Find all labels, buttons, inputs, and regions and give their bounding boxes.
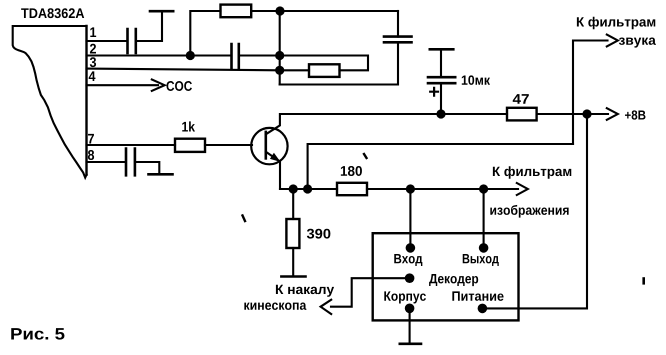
node emitter/390 bbox=[289, 184, 298, 193]
label K nakalu bbox=[276, 285, 334, 297]
label 47 bbox=[513, 94, 529, 104]
pin dot Vhod bbox=[406, 243, 416, 253]
ground (chassis bar) below decoder bbox=[400, 342, 421, 345]
caption Ris. 5 bbox=[11, 328, 64, 340]
wire collector line y114 bbox=[281, 113, 507, 115]
node emitter/sound riser bbox=[303, 184, 312, 193]
resistor (feedback, unmarked) bbox=[309, 64, 340, 77]
ground (chassis bar) below pin8 capacitor bbox=[149, 173, 173, 176]
wire 180 to image-filter arrow bbox=[367, 188, 518, 190]
label K filtram (izobrazheniya line1) bbox=[493, 166, 571, 179]
label K filtram (zvuka line1) bbox=[577, 17, 655, 30]
wire pin8 to capacitor bbox=[87, 161, 126, 163]
arrow to kinescope filament (points left) bbox=[321, 300, 332, 314]
resistor 47 bbox=[507, 108, 537, 121]
node pin3/bus bbox=[275, 66, 284, 75]
node Vyhod drop bbox=[479, 184, 488, 193]
scan speck near 390 bbox=[243, 216, 246, 222]
wire capacitor to ground drop bbox=[135, 162, 159, 173]
pin number 2 bbox=[90, 44, 96, 54]
pin number 7 bbox=[88, 134, 94, 144]
wire emitter junction riser to sound line bbox=[308, 144, 573, 189]
label Pitanie bbox=[452, 291, 503, 300]
pin dot Korpus bbox=[405, 304, 415, 314]
wire capacitor to ground riser bbox=[136, 12, 162, 41]
label kinescopa bbox=[244, 303, 306, 310]
wire pin2 to node bbox=[87, 54, 232, 56]
label zvuka (line2) bbox=[619, 38, 656, 48]
node Vhod drop bbox=[406, 184, 415, 193]
pin dot filament (middle-left) bbox=[405, 273, 415, 283]
pin dot Vyhod bbox=[479, 243, 489, 253]
resistor 1k bbox=[175, 139, 205, 152]
node 10mk junction bbox=[436, 109, 445, 118]
label izobrazheniya (line2) bbox=[490, 205, 568, 218]
pin number 1 bbox=[90, 27, 96, 37]
label 390 bbox=[307, 229, 331, 239]
pin number 8 bbox=[88, 150, 94, 160]
wire bottom of top loop bbox=[280, 42, 398, 84]
capacitor in top loop (x398) bbox=[384, 37, 412, 43]
wire filament pin to arrow bbox=[331, 278, 410, 307]
pin number 3 bbox=[90, 57, 96, 67]
wire 1k to transistor base bbox=[205, 144, 252, 146]
pin number 4 bbox=[89, 71, 96, 81]
wire Pitanie to +8V node bbox=[482, 114, 587, 308]
resistor (top, unmarked) bbox=[221, 5, 252, 18]
label Vhod bbox=[394, 254, 422, 266]
wire pin4 COC bbox=[87, 84, 159, 86]
transistor Q (npn) bbox=[251, 128, 287, 164]
label COC bbox=[166, 81, 191, 91]
pin dot Pitanie bbox=[478, 304, 488, 314]
wire Vyhod vertical bbox=[483, 189, 485, 248]
arrow +8V bbox=[607, 108, 618, 120]
label 1k bbox=[182, 121, 195, 131]
IC right edge bbox=[85, 26, 87, 175]
decoder block bbox=[373, 233, 519, 320]
label +8V bbox=[625, 110, 645, 119]
wire pin1 to capacitor bbox=[87, 40, 128, 42]
wire cap to top line bbox=[397, 11, 399, 37]
ground (chassis bar) above pin1 capacitor bbox=[150, 10, 173, 13]
node pin2/bus bbox=[275, 51, 284, 60]
wire 47 to +8V arrow bbox=[537, 113, 608, 115]
label 10mk bbox=[462, 75, 490, 85]
wire Korpus to ground bbox=[409, 308, 411, 343]
wire pin7 to 1k bbox=[87, 144, 176, 146]
wire capacitor to bus bbox=[239, 54, 280, 56]
wire top resistor to corner x398 bbox=[251, 10, 398, 12]
wire Vhod vertical bbox=[409, 189, 411, 248]
wire sound riser x573 bbox=[573, 41, 608, 145]
arrow to sound filters bbox=[607, 35, 618, 47]
arrow COC bbox=[152, 80, 165, 91]
node at x190 on pin2 line bbox=[186, 51, 195, 60]
capacitor in pin 2 line bbox=[232, 44, 239, 68]
resistor 180 bbox=[337, 183, 367, 195]
resistor 390 bbox=[286, 219, 299, 248]
plus sign of 10mk bbox=[430, 88, 438, 96]
wire emitter line y189 bbox=[280, 188, 337, 190]
wire pin2 extension jog to feedback resistor bbox=[280, 56, 368, 71]
node +8V / power drop bbox=[582, 109, 591, 118]
capacitor at pin 1 bbox=[128, 29, 136, 53]
IC label TDA8362A bbox=[21, 8, 84, 18]
label 180 bbox=[341, 166, 362, 176]
capacitor at pin 8 bbox=[126, 149, 135, 176]
label Vyhod bbox=[463, 254, 499, 266]
wire 390 bottom lead bbox=[292, 248, 294, 276]
terminal bar to kinescope filament bbox=[281, 275, 305, 278]
node top line x280 bbox=[275, 6, 284, 15]
scan speck right margin bbox=[642, 279, 645, 284]
wire riser x191 to top resistor bbox=[190, 11, 220, 56]
wire 390 top lead bbox=[292, 189, 294, 219]
scan speck above 180 bbox=[364, 154, 367, 158]
label Dekoder bbox=[429, 274, 478, 286]
wire pin3 bbox=[87, 69, 310, 71]
arrow to image filters bbox=[517, 183, 528, 195]
ground (chassis bar) above 10mk bbox=[430, 48, 454, 51]
IC TDA8362A (partial outline, torn left edge) bbox=[13, 26, 87, 178]
wire vertical bus x279.5 bbox=[279, 11, 281, 85]
capacitor 10mk electrolytic bbox=[440, 50, 442, 114]
label Korpus bbox=[384, 291, 426, 303]
